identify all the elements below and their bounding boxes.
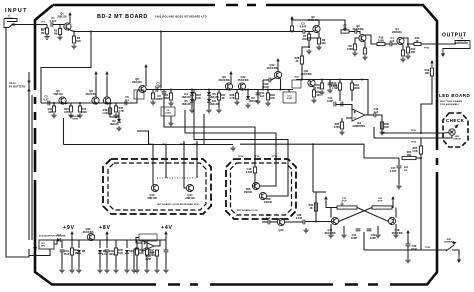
ground vref plus: [131, 268, 136, 273]
wire R24 right lead: [416, 157, 421, 159]
svg-text:+4V: +4V: [161, 225, 173, 231]
svg-text:100K: 100K: [149, 253, 155, 257]
wire drop x147 low: [146, 255, 148, 268]
input jack J1: [4, 19, 18, 28]
svg-text:10K: 10K: [118, 251, 123, 255]
wire D6 top: [208, 90, 210, 93]
wire R5 to R38 tap: [308, 40, 310, 47]
wire C11 leads: [257, 90, 259, 100]
wire Q4 drain right: [403, 38, 414, 44]
arrow +9V row A second: [105, 71, 108, 74]
svg-text:100K: 100K: [378, 39, 384, 43]
transistor Q13 (FET sw): [151, 184, 158, 191]
node LED junction: [420, 132, 422, 134]
wire bus to C2: [299, 31, 303, 33]
wire ff r3 gnd: [377, 226, 379, 233]
svg-text:10K: 10K: [411, 50, 416, 54]
wire box C9 bottom lead: [170, 116, 172, 121]
connector pin arrow up: [27, 88, 30, 91]
node row C x340: [339, 79, 341, 81]
node output junction: [407, 43, 409, 45]
node row B x161: [160, 89, 162, 91]
svg-text:TP14: TP14: [238, 155, 244, 158]
svg-text:100P: 100P: [370, 236, 376, 240]
diode D7: [57, 238, 60, 242]
ground under R2: [57, 35, 62, 40]
svg-text:1K: 1K: [309, 206, 312, 210]
capacitor C4: [390, 42, 392, 47]
routing wire bus y145: [64, 144, 234, 146]
ground under x107: [104, 268, 109, 273]
resistor R19: [430, 68, 433, 76]
svg-text:10K: 10K: [64, 110, 69, 114]
wire R21 top: [170, 90, 172, 94]
svg-text:2SC2458: 2SC2458: [392, 231, 403, 235]
svg-text:0.047: 0.047: [300, 25, 307, 29]
capacitor C17: [397, 166, 402, 168]
wire R14 top: [53, 103, 55, 106]
wire LED anode: [444, 132, 449, 135]
svg-text:100K: 100K: [81, 110, 87, 114]
wire C8b to Q12: [271, 78, 276, 81]
ground under R28: [234, 100, 239, 105]
wire C30 left: [262, 221, 268, 223]
svg-text:1.5M: 1.5M: [332, 86, 338, 90]
ground under R35: [339, 130, 344, 135]
wire ff base bias r: [395, 224, 397, 233]
wire R23 bottom: [193, 100, 195, 108]
resistor R38: [300, 56, 303, 64]
arrow +9V LED column: [430, 60, 433, 63]
resistor R20: [151, 93, 154, 99]
resistor R46: [135, 248, 138, 255]
resistor R11: [401, 50, 404, 56]
resistor R10: [377, 42, 385, 45]
arrow +9V ff left: [324, 196, 327, 199]
svg-text:10K: 10K: [76, 39, 81, 43]
svg-text:NJM4558L: NJM4558L: [353, 124, 366, 128]
ground under R14: [51, 113, 56, 118]
svg-text:10K: 10K: [425, 71, 430, 75]
wire drop x72 low: [71, 255, 73, 268]
wire D2 top: [118, 112, 120, 119]
capacitor C31: [60, 250, 65, 252]
capacitor C32: [105, 250, 110, 252]
board outline left dash segments: [34, 128, 37, 144]
wire row A: [41, 102, 108, 104]
resistor R24: [402, 156, 416, 159]
arrow +9V x408: [406, 230, 409, 233]
svg-text:1uF: 1uF: [374, 110, 379, 114]
wire Q3 emitter down: [364, 42, 366, 49]
resistor R21: [169, 93, 172, 100]
wire C28 left: [296, 221, 303, 223]
wire ff left arrow down: [325, 201, 327, 204]
wire box1 entry 4: [196, 141, 198, 178]
diode D6: [207, 92, 211, 95]
node row B x171: [170, 89, 172, 91]
node Q12 emitter row B: [280, 89, 282, 91]
wire input tip to board: [18, 24, 47, 26]
wire vref fb: [136, 238, 142, 244]
svg-text:D7: D7: [57, 233, 61, 237]
wire C16 right: [376, 115, 382, 122]
node R5 tap: [308, 46, 310, 48]
resistor R18: [108, 108, 111, 114]
wire Q2 emitter down: [307, 33, 319, 39]
wire Q2 collector up: [291, 20, 319, 26]
capacitor C21: [356, 229, 361, 231]
wire R1 lead: [46, 25, 48, 29]
wire R34 bottom: [351, 90, 353, 101]
svg-text:0.047: 0.047: [165, 112, 171, 115]
wire R37 top: [218, 90, 220, 94]
wire ff r2 gnd: [343, 226, 345, 233]
wire Q9 collector: [230, 77, 232, 83]
arrow +9V Q9: [229, 71, 232, 74]
wire Q4 source down: [402, 45, 404, 51]
diode D9 (zener): [98, 250, 102, 253]
input sleeve tick: [13, 23, 15, 26]
resistor R16: [78, 106, 81, 112]
svg-text:47uF: 47uF: [63, 252, 69, 256]
op-amp IC1a: [352, 109, 365, 121]
wire R24 left down: [398, 158, 400, 165]
resistor R8: [353, 44, 356, 50]
wire arrow to R4: [291, 22, 293, 26]
svg-text:1N4148: 1N4148: [181, 95, 191, 99]
resistor R40 in box2: [253, 167, 256, 173]
svg-text:0.022: 0.022: [246, 170, 253, 174]
wire drop x72: [71, 240, 73, 248]
output jack J2: [452, 41, 470, 49]
capacitor C6: [125, 101, 127, 106]
wire ff right collector drop: [395, 208, 397, 218]
svg-text:TP11: TP11: [162, 144, 168, 146]
diode D4: [190, 92, 194, 95]
wire R15 top: [70, 103, 72, 106]
svg-text:10K: 10K: [196, 96, 201, 100]
svg-text:+8V: +8V: [99, 225, 111, 231]
transistor Q20 (reg): [87, 233, 94, 240]
arrow +9V ff right: [391, 196, 394, 199]
wire Q19 to C28: [285, 221, 297, 223]
ground under R20: [150, 100, 155, 105]
ground under x62: [59, 268, 64, 273]
wire box1 entry 1: [152, 145, 154, 185]
resistor R31: [312, 90, 315, 97]
wire right column upper: [364, 157, 399, 159]
wire D3 top: [247, 90, 249, 97]
wire C8 top lead: [163, 90, 165, 93]
svg-text:0.047: 0.047: [296, 216, 303, 220]
node row B x209: [208, 89, 210, 91]
wire C9 gnd tap to bus: [137, 131, 149, 145]
svg-text:2SK30: 2SK30: [264, 200, 272, 204]
wire R16 top: [79, 103, 81, 106]
routing wire bus riser: [63, 118, 65, 145]
wire op out to LED net: [382, 122, 410, 133]
wire opamp feedback: [362, 80, 368, 116]
resistor R44: [70, 248, 73, 255]
svg-text:1995 ROLAND BOSS KEYBOARD LTD: 1995 ROLAND BOSS KEYBOARD LTD: [155, 16, 207, 19]
resistor R5: [307, 34, 310, 40]
wire drop x100 low: [99, 254, 101, 269]
svg-text:2SC2458: 2SC2458: [238, 78, 249, 82]
node bus x91: [90, 31, 92, 33]
svg-text:1K: 1K: [295, 59, 298, 63]
wire D4 top: [191, 90, 193, 93]
feedback box around Q8: [134, 90, 144, 99]
wire R38 to row C: [301, 64, 303, 80]
wire R35 top: [341, 118, 343, 122]
transistor Q14 (FET sw): [186, 184, 193, 191]
wire D5 link: [191, 95, 193, 99]
svg-text:0.047: 0.047: [390, 169, 397, 173]
svg-text:TP12: TP12: [180, 144, 186, 146]
svg-text:TP20: TP20: [424, 48, 430, 50]
wire box2 internal: [253, 173, 256, 186]
wire D11 link: [208, 95, 210, 99]
resistor R35: [340, 122, 343, 129]
wire C33 low: [165, 252, 167, 268]
chassis arrow at output: [441, 53, 445, 57]
arrow +9V row A first: [94, 71, 97, 74]
wire battery rail 2: [31, 95, 33, 240]
resistor R15: [69, 106, 72, 112]
transistor Q3: [359, 34, 366, 41]
transistor Q6: [92, 97, 99, 104]
svg-text:1uF: 1uF: [266, 216, 271, 220]
resistor R7: [341, 30, 349, 33]
wire Q1 emitter to bus: [70, 30, 74, 32]
wire Q5 source: [65, 103, 68, 104]
wire ff base bias: [330, 224, 332, 233]
svg-text:2SC2458: 2SC2458: [325, 231, 336, 235]
wire R10 to C4: [385, 43, 390, 45]
resistor R25: [419, 146, 422, 154]
wire battery rail: [28, 72, 30, 240]
resistor R28: [235, 93, 238, 99]
arrow +9V to Q1: [68, 12, 71, 15]
wire switch to arrow: [456, 250, 459, 255]
wire C29 bottom: [407, 246, 409, 258]
ground under R5: [306, 49, 311, 54]
svg-text:100P: 100P: [327, 99, 333, 103]
wire to opamp minus: [336, 105, 352, 112]
transistor Q17: [331, 217, 338, 224]
FET shield box 2 inner: [231, 163, 292, 215]
ground under R48: [154, 268, 159, 273]
FET shield box 2 outer: [226, 159, 296, 219]
svg-text:IN PUT: IN PUT: [5, 18, 13, 20]
svg-text:2SK118: 2SK118: [53, 92, 63, 96]
resistor R9: [363, 48, 366, 54]
wire Q11 emitter down: [313, 87, 315, 91]
capacitor C1: [51, 22, 53, 27]
resistor R36: [380, 122, 383, 129]
wire R37 bottom: [218, 100, 220, 108]
svg-text:100: 100: [321, 41, 326, 45]
arrow +8V rail: [105, 231, 108, 234]
node feedback tap: [361, 79, 363, 81]
wire to output jack: [421, 43, 452, 45]
svg-text:1N4148: 1N4148: [209, 102, 219, 106]
svg-text:D8: D8: [82, 249, 86, 253]
svg-text:1uF: 1uF: [390, 39, 395, 43]
wire R33 top: [339, 80, 341, 84]
component box C12: [283, 92, 296, 103]
ground under C28 wire: [303, 228, 308, 233]
svg-text:2SK30: 2SK30: [244, 190, 252, 194]
wire Q3 base left: [355, 38, 359, 44]
wire R25 down to switch rail: [420, 154, 422, 250]
wire LED feed upper: [410, 132, 444, 134]
svg-text:2SK118: 2SK118: [57, 15, 67, 19]
node row A x54: [53, 102, 55, 104]
svg-text:10K: 10K: [407, 153, 412, 157]
ground under C17: [396, 184, 401, 189]
ground under R31: [311, 98, 316, 103]
ground ff 3: [375, 233, 380, 238]
svg-text:OUTPUT: OUTPUT: [458, 41, 468, 43]
svg-text:1M: 1M: [54, 32, 58, 36]
node bus x292: [291, 31, 293, 33]
svg-text:1K: 1K: [415, 39, 418, 43]
wire ff rail top: [313, 191, 326, 193]
wire R32 top: [321, 80, 323, 84]
wire Q12 emitter down: [280, 79, 282, 90]
resistor R1: [45, 28, 48, 34]
svg-text:INPUT: INPUT: [5, 8, 28, 14]
wire C28 right: [305, 221, 316, 223]
wire C2 to Q2: [305, 31, 313, 33]
resistor R47: [145, 248, 148, 255]
node C8b row B: [262, 89, 264, 91]
svg-text:1N4148: 1N4148: [181, 102, 191, 106]
svg-text:1.5K: 1.5K: [412, 149, 418, 153]
wire ff cross 1 (left res to right base): [357, 208, 389, 222]
ground under x147: [144, 268, 149, 273]
capacitor C22: [367, 229, 372, 231]
ground under R32: [319, 90, 324, 95]
component box R30: [292, 80, 301, 88]
transistor Q1: [64, 23, 71, 30]
svg-text:CHECK: CHECK: [453, 139, 461, 141]
transistor Q8: [139, 85, 146, 92]
capacitor C16: [374, 113, 376, 118]
wire R28 top: [236, 90, 238, 94]
wire drop x62: [61, 240, 63, 248]
svg-text:4.7K: 4.7K: [229, 96, 235, 100]
wire Q20 on rail: [87, 239, 95, 241]
svg-text:TP23: TP23: [425, 247, 431, 249]
wire LED feed lower: [410, 137, 444, 139]
wire bus drop to loop: [41, 32, 91, 104]
svg-text:10uF: 10uF: [263, 85, 269, 89]
svg-text:10KB: 10KB: [72, 119, 78, 121]
node input junction: [12, 24, 14, 26]
arrow +9V Q8: [144, 64, 147, 67]
wire C8b left: [263, 79, 269, 81]
ground ff 4: [393, 233, 398, 238]
ground ff 2: [341, 233, 346, 238]
svg-text:MOMENT: MOMENT: [444, 242, 454, 244]
wire stage1 to row C: [302, 47, 309, 56]
wire LED column down: [420, 138, 422, 146]
wire box1 entry 2: [165, 145, 167, 179]
svg-text:1M: 1M: [404, 170, 407, 172]
svg-text:CHECK: CHECK: [446, 118, 465, 123]
svg-text:22K: 22K: [302, 37, 307, 41]
wire R19 down: [421, 76, 432, 133]
capacitor C13: [328, 83, 333, 85]
ground under D5: [189, 108, 194, 113]
wire +8V drop: [106, 237, 108, 240]
capacitor C33: [164, 250, 169, 252]
ground under C13: [327, 88, 332, 93]
node bus x161: [160, 31, 162, 33]
ground under box C9: [168, 121, 173, 126]
arrow +4V rail: [164, 231, 167, 234]
wire Q8 drain riser: [145, 70, 147, 86]
wire lower LED net drop: [373, 127, 375, 138]
transistor Q7: [103, 97, 110, 104]
ground under R15: [68, 113, 73, 118]
connector pin arrow down: [27, 81, 30, 84]
node row C input: [301, 79, 303, 81]
wire drop x127 low: [126, 254, 128, 269]
svg-text:1M: 1M: [41, 31, 45, 35]
svg-text:FOR ASSEMBLY: FOR ASSEMBLY: [440, 103, 460, 106]
wire drop x147: [146, 240, 148, 248]
wire opamp out right: [365, 114, 374, 116]
svg-text:10K: 10K: [343, 27, 348, 31]
ground under R17: [113, 113, 118, 118]
wire C1 to Q1: [53, 24, 64, 26]
svg-text:1.2K: 1.2K: [102, 111, 108, 115]
wire D11 bottom: [208, 102, 210, 108]
diode D10: [125, 250, 129, 253]
wire R48 low: [156, 256, 158, 268]
svg-text:470P: 470P: [155, 85, 161, 89]
svg-text:100K: 100K: [353, 86, 359, 90]
wire drop x107: [106, 240, 108, 248]
capacitor C11: [256, 93, 261, 95]
wire drop x62 low: [61, 252, 63, 268]
wire drop x100: [99, 240, 101, 248]
wire drop x127: [126, 240, 128, 248]
wire box C12 leads: [288, 90, 290, 93]
routing wire s3: [194, 108, 288, 196]
ground under R29: [265, 101, 270, 106]
node row B x268: [267, 89, 269, 91]
capacitor C15: [341, 102, 343, 107]
wire C3 to Q3: [357, 32, 360, 35]
transistor Q10: [238, 83, 245, 90]
resistor R29: [266, 93, 269, 100]
LED D100 (check indicator): [449, 129, 455, 135]
capacitor C7: [156, 87, 158, 92]
node C28 junction: [315, 221, 317, 223]
wire ff to switch: [364, 249, 443, 251]
transistor Q2: [313, 25, 320, 32]
svg-text:1M: 1M: [48, 110, 52, 114]
wire drop x116 low: [115, 255, 117, 268]
wire Q2 out right: [319, 20, 345, 31]
svg-text:+9V: +9V: [63, 225, 75, 231]
svg-text:2SC2458: 2SC2458: [301, 72, 312, 76]
